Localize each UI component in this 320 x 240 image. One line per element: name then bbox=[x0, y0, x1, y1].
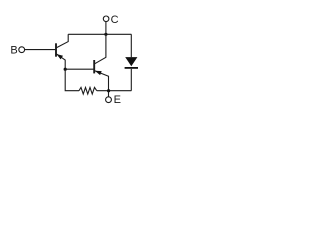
top rail wire bbox=[68, 33, 131, 35]
transistor Q1 emitter arrow bbox=[56, 54, 63, 59]
wire diode anode bbox=[130, 34, 132, 57]
wire junction A down to resistor bbox=[65, 69, 79, 91]
terminal circle C bbox=[103, 16, 109, 22]
diode D1 triangle bbox=[125, 57, 137, 66]
node junction at C bbox=[104, 33, 107, 36]
transistor Q1 base bar bbox=[55, 43, 57, 56]
terminal circle B bbox=[19, 47, 25, 53]
wire C lead bbox=[105, 22, 107, 35]
svg-text:C: C bbox=[111, 14, 119, 26]
transistor Q1 emitter lead bbox=[56, 54, 65, 69]
wire B to Q1 base bbox=[25, 49, 56, 51]
svg-text:E: E bbox=[114, 94, 121, 106]
node junction A bbox=[64, 68, 67, 71]
transistor Q2 emitter lead bbox=[95, 71, 109, 97]
wire Q1 emitter to Q2 base bbox=[65, 68, 93, 70]
bottom wire resistor to diode bbox=[97, 90, 132, 92]
wire diode cathode to bottom rail bbox=[130, 69, 132, 91]
svg-text:B: B bbox=[10, 45, 17, 57]
resistor R1 bbox=[79, 87, 97, 94]
transistor Q2 emitter arrow bbox=[95, 71, 102, 75]
transistor Q2 collector lead bbox=[95, 34, 106, 64]
transistor Q1 collector lead bbox=[56, 34, 68, 47]
node junction at E bbox=[107, 89, 110, 92]
terminal circle E bbox=[106, 97, 112, 103]
transistor Q2 base bar bbox=[93, 60, 95, 73]
diode D1 cathode bar bbox=[125, 67, 138, 69]
